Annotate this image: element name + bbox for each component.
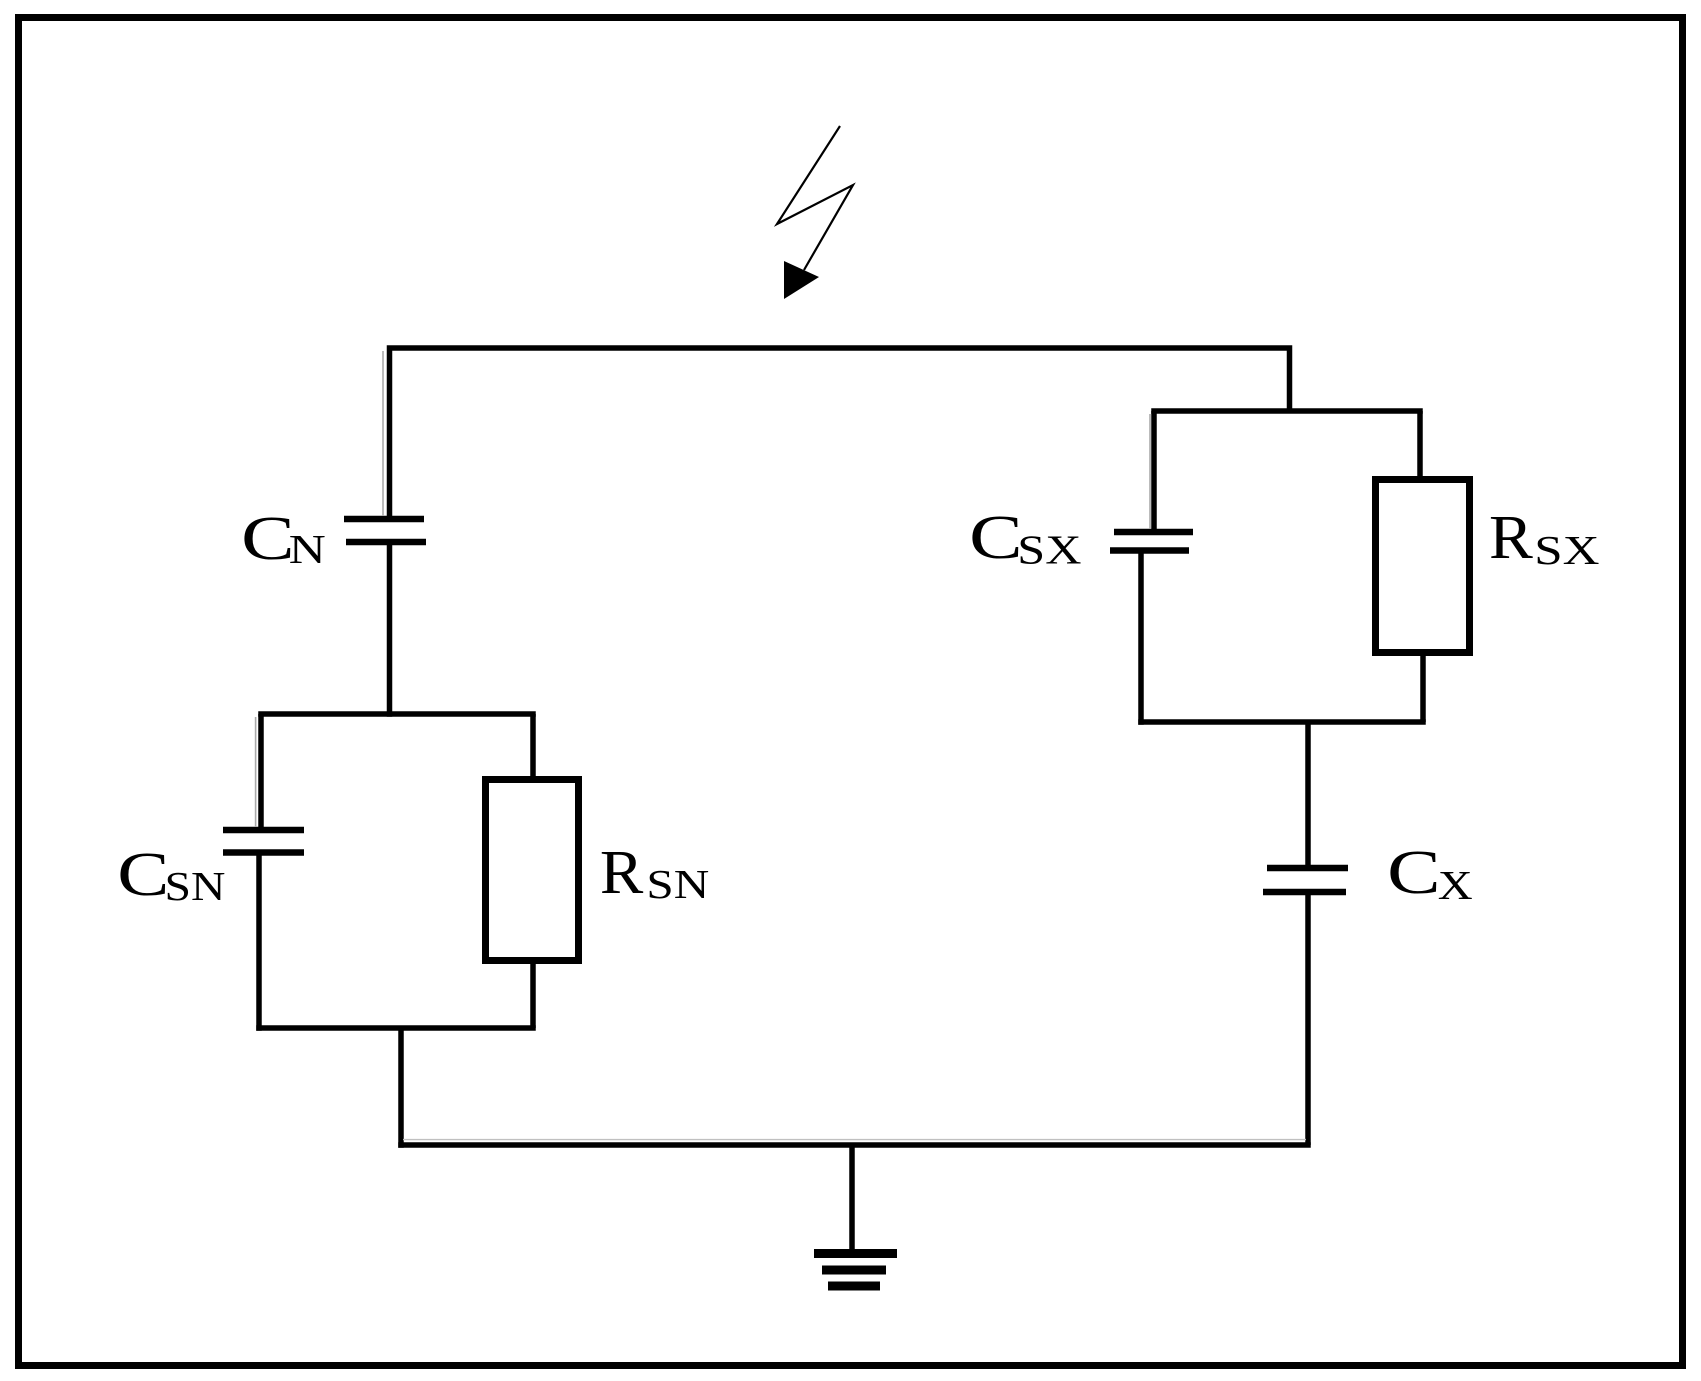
capacitor CSN xyxy=(223,830,304,853)
wire: bottom bus xyxy=(398,1142,1311,1148)
wire shadow: left of CSX upper lead xyxy=(1149,414,1151,529)
capacitor CX xyxy=(1263,868,1348,892)
wire shadow: left of CN lead xyxy=(382,351,384,516)
svg-text:R: R xyxy=(600,837,644,906)
wire: right block top xyxy=(1151,408,1423,414)
label CX xyxy=(1387,838,1473,908)
wire: ground stem xyxy=(849,1145,855,1251)
wire: RSX lower lead xyxy=(1420,652,1426,722)
wire: right block bottom xyxy=(1138,719,1426,725)
label RSN xyxy=(600,837,709,907)
wire: left block bottom xyxy=(256,1025,536,1031)
label CN xyxy=(241,504,326,573)
ground xyxy=(814,1254,897,1287)
svg-text:C: C xyxy=(117,840,169,909)
wire: top bus xyxy=(390,348,1290,519)
wire: CSN upper lead xyxy=(258,714,264,830)
svg-text:SX: SX xyxy=(1534,529,1599,574)
wire: CN to left block xyxy=(387,542,393,717)
wire: left block top xyxy=(258,711,536,717)
svg-text:X: X xyxy=(1438,862,1473,908)
lightning strike arrow xyxy=(777,126,853,299)
resistor RSN xyxy=(486,780,579,961)
wire: CSX upper lead xyxy=(1151,411,1157,532)
svg-text:R: R xyxy=(1489,503,1533,572)
label CSX xyxy=(969,503,1081,573)
wire shadow: above bottom bus xyxy=(403,1139,1306,1141)
svg-text:N: N xyxy=(289,528,326,573)
svg-text:C: C xyxy=(1387,838,1441,907)
wire: CX to bottom bus xyxy=(1305,892,1311,1145)
wire: left block to bottom bus xyxy=(398,1028,404,1148)
svg-text:C: C xyxy=(241,504,295,573)
svg-text:C: C xyxy=(969,503,1023,572)
wire: CSN lower lead xyxy=(256,853,262,1031)
label CSN xyxy=(117,840,225,909)
label RSX xyxy=(1489,503,1600,574)
wire: RSN lower lead xyxy=(530,960,536,1028)
wire: CSX lower lead xyxy=(1138,551,1144,725)
wire: RSN upper lead xyxy=(530,714,536,779)
capacitor CSX xyxy=(1110,532,1193,551)
svg-text:SN: SN xyxy=(646,862,709,907)
resistor RSX xyxy=(1376,480,1470,653)
svg-text:SX: SX xyxy=(1017,527,1081,573)
wire: RSX upper lead xyxy=(1417,411,1423,479)
wire shadow: left of CSN upper lead xyxy=(255,717,257,827)
capacitor CN xyxy=(344,519,426,542)
wire: right block to CX xyxy=(1305,722,1311,868)
svg-text:SN: SN xyxy=(165,863,226,909)
